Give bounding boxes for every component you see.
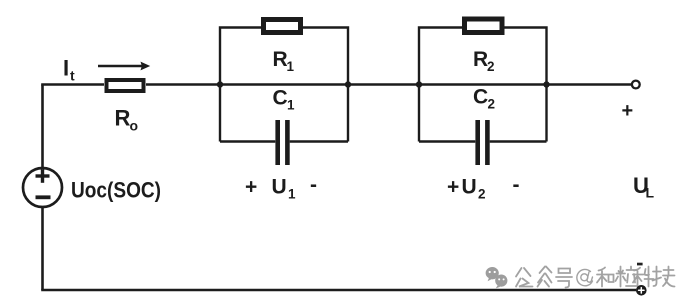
svg-text:R: R xyxy=(115,106,131,131)
svg-text:I: I xyxy=(63,56,69,81)
svg-text:t: t xyxy=(70,68,75,84)
svg-text:+: + xyxy=(622,100,634,122)
svg-text:2: 2 xyxy=(478,187,486,202)
svg-text:Uoc(SOC): Uoc(SOC) xyxy=(71,178,161,203)
svg-text:+: + xyxy=(447,176,459,199)
svg-text:R: R xyxy=(273,48,288,71)
svg-text:L: L xyxy=(646,185,655,201)
svg-text:-: - xyxy=(310,174,317,197)
svg-text:+: + xyxy=(245,176,257,199)
svg-text:-: - xyxy=(513,174,520,197)
svg-text:1: 1 xyxy=(287,97,295,112)
svg-text:C: C xyxy=(473,85,488,108)
svg-text:2: 2 xyxy=(488,96,496,111)
svg-text:U: U xyxy=(272,176,287,199)
svg-text:o: o xyxy=(130,118,139,134)
svg-text:1: 1 xyxy=(288,187,296,202)
svg-text:R: R xyxy=(473,48,488,71)
svg-text:U: U xyxy=(462,176,477,199)
svg-text:C: C xyxy=(273,86,288,109)
svg-text:1: 1 xyxy=(287,59,295,74)
svg-text:2: 2 xyxy=(487,59,495,74)
